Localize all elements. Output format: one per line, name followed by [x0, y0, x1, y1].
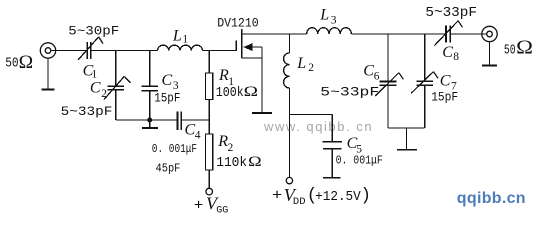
svg-text:GG: GG: [216, 206, 228, 217]
svg-text:2: 2: [308, 62, 314, 74]
ground (C6/C7): [397, 128, 417, 150]
inductor L1: [158, 45, 203, 50]
svg-text:50: 50: [5, 56, 18, 72]
svg-text:100k: 100k: [216, 85, 244, 101]
capacitor C6 (variable 5~33pF): [375, 34, 403, 128]
inductor L3: [307, 28, 352, 34]
label C2: [90, 80, 107, 100]
svg-text:1: 1: [92, 69, 98, 81]
transistor Q1 DV1210 gate bar: [235, 40, 237, 51]
label +VGG: [194, 194, 228, 217]
inductor L2 vertical: [284, 34, 290, 177]
wire C6 C7 bottoms: [388, 127, 425, 129]
svg-text:DV1210: DV1210: [217, 17, 259, 31]
svg-text:C: C: [363, 63, 374, 80]
label R1: [218, 67, 234, 88]
capacitor C3 15pF: [142, 51, 159, 121]
connector J1 (input 50 ohm): [40, 43, 55, 58]
wire R1 to R2: [208, 100, 210, 135]
capacitor C8 (variable 5~33pF): [434, 21, 462, 46]
ground (source): [252, 112, 272, 114]
svg-text:3: 3: [173, 80, 179, 92]
capacitor C5 0.001uF: [322, 114, 342, 177]
ground (input connector): [41, 58, 54, 89]
svg-text:qqibb.cn: qqibb.cn: [457, 190, 526, 207]
wire C1 to gate: [91, 50, 158, 52]
wire L1 to gate: [203, 50, 237, 52]
label 110k ohm: [216, 154, 262, 171]
svg-text:5~33pF: 5~33pF: [425, 5, 477, 21]
transistor source bar: [242, 57, 262, 59]
wire source down: [261, 47, 263, 113]
ground (C5): [323, 177, 340, 179]
svg-text:Ω: Ω: [19, 53, 33, 73]
svg-text:4: 4: [195, 129, 201, 141]
svg-text:15pF: 15pF: [154, 91, 180, 105]
ground (bottom node): [142, 120, 158, 128]
resistor R2 110k: [206, 134, 213, 170]
label 50 ohm output: [504, 37, 533, 58]
svg-text:0. 001μF: 0. 001μF: [336, 154, 383, 168]
svg-text:www. qqibb. cn: www. qqibb. cn: [263, 119, 373, 134]
svg-text:5~33pF: 5~33pF: [61, 104, 113, 119]
svg-text:): ): [361, 186, 372, 206]
wire L3 to C8: [351, 33, 445, 35]
svg-text:15pF: 15pF: [431, 91, 458, 105]
svg-text:Ω: Ω: [516, 37, 533, 58]
resistor R1 100k: [206, 73, 213, 100]
wire C4 to R branch: [181, 119, 209, 121]
label C3: [162, 72, 179, 92]
svg-text:6: 6: [374, 71, 380, 83]
capacitor C2 (variable 5~33pF): [104, 51, 131, 121]
label C5: [347, 135, 363, 156]
svg-text:+: +: [194, 197, 203, 214]
svg-text:C: C: [440, 73, 451, 90]
ground (output connector): [482, 42, 497, 66]
wire L2 node to C5: [289, 113, 332, 115]
wire connector to C1: [51, 50, 87, 52]
terminal VGG: [206, 188, 213, 195]
svg-text:L: L: [296, 55, 306, 72]
svg-text:+12.5V: +12.5V: [315, 189, 361, 205]
terminal VDD: [286, 177, 292, 183]
label L2: [296, 55, 314, 74]
label L1: [172, 27, 189, 45]
label C4: [185, 122, 201, 142]
bottom wire C2 to C4: [116, 119, 178, 121]
svg-text:Ω: Ω: [244, 84, 258, 100]
svg-text:8: 8: [453, 51, 459, 63]
svg-text:110k: 110k: [216, 155, 247, 171]
label C7: [440, 73, 457, 93]
label +VDD (+12.5V): [272, 185, 371, 208]
svg-text:45pF: 45pF: [156, 161, 181, 175]
label C6: [363, 63, 380, 83]
label C1: [83, 62, 98, 80]
svg-text:C: C: [90, 80, 101, 97]
drain wire to L3: [242, 33, 307, 35]
svg-text:2: 2: [101, 88, 107, 100]
svg-text:DD: DD: [293, 196, 306, 208]
svg-text:+: +: [272, 188, 282, 205]
junction node (bottom wire): [147, 118, 152, 123]
transistor substrate arrow: [243, 43, 262, 51]
svg-text:2: 2: [228, 142, 234, 154]
svg-text:C: C: [442, 44, 453, 61]
svg-text:5~30pF: 5~30pF: [68, 23, 119, 38]
connector J2 (output 50 ohm): [482, 26, 497, 41]
label 50 ohm input: [5, 53, 33, 73]
svg-text:0. 001μF: 0. 001μF: [152, 142, 197, 156]
label 100k ohm: [216, 84, 258, 101]
svg-text:Ω: Ω: [248, 154, 262, 170]
capacitor C7 (variable 15pF): [411, 34, 438, 128]
wire R2 to VGG terminal: [208, 170, 210, 188]
label R2: [217, 133, 233, 154]
svg-text:5~33pF: 5~33pF: [320, 85, 379, 100]
capacitor C1 (variable 5~30pF): [78, 37, 103, 60]
label C8: [442, 44, 459, 63]
svg-text:3: 3: [331, 15, 337, 27]
svg-text:1: 1: [182, 34, 188, 46]
svg-text:L: L: [172, 27, 182, 44]
label L3: [319, 7, 337, 27]
svg-text:50: 50: [504, 42, 516, 58]
capacitor C4: [178, 112, 182, 130]
svg-text:C: C: [162, 72, 173, 89]
wire C8 to output connector: [450, 33, 486, 35]
svg-text:L: L: [319, 7, 329, 24]
wire main to R1: [208, 51, 210, 74]
transistor channel: [241, 29, 243, 58]
